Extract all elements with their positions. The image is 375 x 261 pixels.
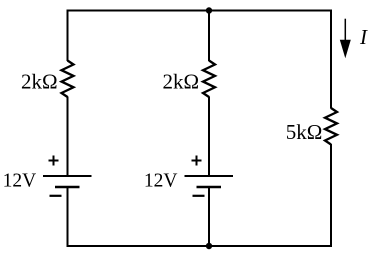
node: top junction dot	[206, 7, 212, 13]
battery V1 12V: short negative plate	[55, 186, 80, 189]
wire: left branch middle segment	[67, 97, 69, 177]
battery V2 minus sign	[193, 195, 205, 197]
wire: right branch bottom segment	[330, 144, 332, 247]
current arrow I: shaft	[344, 19, 346, 44]
battery V2 plus sign	[192, 156, 202, 166]
svg-text:12V: 12V	[3, 170, 37, 191]
svg-text:2kΩ: 2kΩ	[163, 69, 200, 93]
wire: middle branch middle segment	[208, 97, 210, 177]
wire: left branch bottom segment	[67, 187, 69, 247]
wire: top horizontal bus	[67, 10, 332, 12]
wire: bottom horizontal bus	[67, 245, 332, 247]
battery V1 minus sign	[50, 195, 62, 197]
svg-text:I: I	[359, 25, 368, 49]
battery V1 12V: long positive plate	[43, 175, 92, 177]
svg-text:2kΩ: 2kΩ	[21, 69, 58, 93]
wire: left branch top segment	[67, 10, 69, 62]
wire: middle branch bottom segment	[208, 187, 210, 246]
svg-text:12V: 12V	[144, 170, 178, 191]
battery V1 plus sign	[49, 156, 59, 166]
node: bottom junction dot	[206, 243, 212, 249]
resistor R2 2kOhm (middle)	[203, 61, 215, 98]
resistor R3 5kOhm (right)	[325, 108, 337, 145]
svg-text:5kΩ: 5kΩ	[286, 120, 323, 144]
resistor R1 2kOhm (left)	[62, 61, 74, 98]
current arrow I: head	[340, 40, 351, 59]
battery V2 12V: short negative plate	[197, 186, 222, 189]
wire: right branch top segment	[330, 10, 332, 109]
battery V2 12V: long positive plate	[185, 175, 234, 177]
wire: middle branch top segment	[208, 11, 210, 62]
